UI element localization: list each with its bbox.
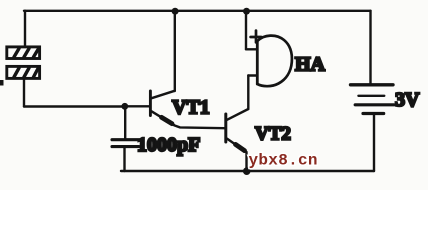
sensor electrode E2 bottom plate bbox=[7, 66, 40, 78]
node junction dot bottom rail / VT2 emitter bbox=[243, 167, 251, 175]
sensor electrode E1 top plate bbox=[7, 47, 40, 59]
wire bottom rail bbox=[121, 170, 374, 172]
capacitor C lead top bbox=[124, 106, 126, 138]
label + polarity of buzzer bbox=[251, 31, 262, 43]
wire VT1 collector vertical bbox=[174, 11, 176, 91]
node junction dot top rail / buzzer bbox=[243, 8, 250, 15]
wire left horizontal to base node bbox=[24, 105, 125, 107]
capacitor lead bottom bbox=[123, 148, 125, 171]
transistor VT1 bbox=[150, 91, 174, 125]
wire VT1 base lead bbox=[125, 105, 149, 107]
transistor VT2 bbox=[226, 109, 249, 152]
capacitor 1000pF bbox=[112, 140, 139, 147]
node junction dot top rail / VT1 collector bbox=[172, 8, 179, 15]
wire left bottom vertical bbox=[23, 80, 25, 107]
svg-text:VT2: VT2 bbox=[255, 124, 291, 145]
svg-text:VT1: VT1 bbox=[172, 97, 210, 119]
wire VT2 collector vertical to buzzer bbox=[247, 76, 249, 110]
svg-text:3V: 3V bbox=[395, 89, 420, 111]
battery GB 3V bbox=[351, 85, 394, 114]
wire left top vertical bbox=[24, 11, 26, 47]
svg-text:ybx8.cn: ybx8.cn bbox=[249, 152, 318, 170]
wire VT1 emitter to VT2 base bbox=[174, 125, 224, 128]
scan artifact left edge bbox=[0, 80, 4, 86]
wire right top vertical bbox=[369, 11, 371, 85]
node junction dot at VT1 base bbox=[121, 103, 128, 110]
wire battery bottom vertical bbox=[373, 114, 375, 172]
wire buzzer top to top rail bbox=[245, 11, 247, 50]
buzzer HA bbox=[246, 36, 292, 87]
wire VT2 emitter vertical to bottom rail bbox=[245, 152, 247, 171]
svg-text:1000pF: 1000pF bbox=[137, 134, 200, 156]
wire top rail bbox=[24, 10, 371, 12]
svg-text:HA: HA bbox=[295, 54, 326, 76]
